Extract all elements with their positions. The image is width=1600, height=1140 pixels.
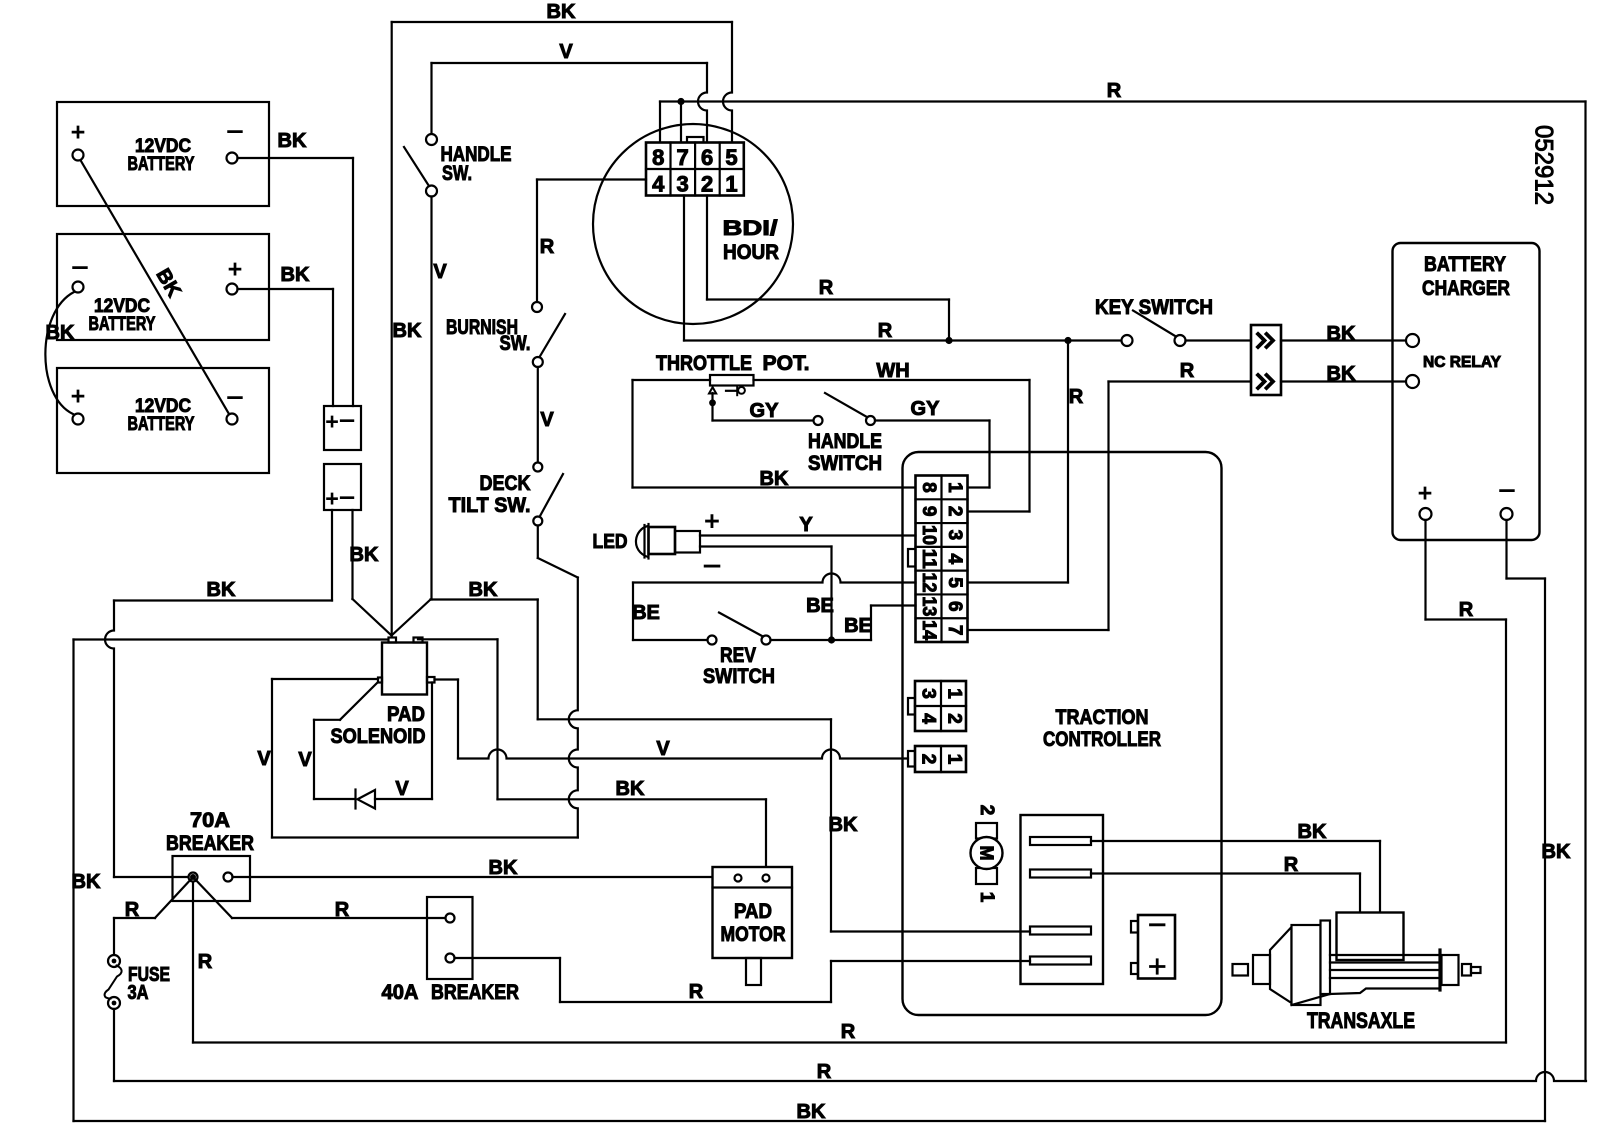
- svg-text:2: 2: [976, 805, 997, 816]
- svg-text:R: R: [878, 320, 893, 342]
- svg-text:SOLENOID: SOLENOID: [331, 725, 426, 748]
- svg-text:2: 2: [944, 506, 965, 517]
- svg-text:BK: BK: [547, 1, 576, 23]
- svg-text:1: 1: [725, 172, 737, 197]
- svg-text:DECK: DECK: [480, 472, 531, 495]
- svg-text:8: 8: [918, 482, 939, 493]
- svg-text:3: 3: [677, 172, 689, 197]
- svg-text:–: –: [228, 380, 243, 410]
- svg-text:–: –: [73, 250, 88, 280]
- svg-text:–: –: [228, 114, 243, 144]
- svg-text:SW.: SW.: [500, 332, 531, 355]
- svg-text:BK: BK: [393, 320, 422, 342]
- svg-text:8: 8: [652, 145, 664, 170]
- svg-text:R: R: [841, 1021, 856, 1043]
- svg-text:HANDLE: HANDLE: [808, 430, 882, 453]
- svg-text:BK: BK: [278, 130, 307, 152]
- svg-text:1: 1: [944, 482, 965, 493]
- svg-text:2: 2: [944, 713, 965, 724]
- svg-text:4: 4: [652, 172, 665, 197]
- svg-text:BK: BK: [1542, 841, 1571, 863]
- svg-text:V: V: [559, 41, 573, 63]
- svg-text:BK: BK: [760, 468, 789, 490]
- svg-text:WH: WH: [876, 360, 909, 382]
- svg-text:V: V: [433, 261, 447, 283]
- svg-text:BATTERY: BATTERY: [128, 154, 195, 175]
- svg-text:BATTERY: BATTERY: [1424, 253, 1506, 276]
- svg-text:5: 5: [944, 577, 965, 588]
- svg-text:BK: BK: [72, 871, 101, 893]
- svg-text:V: V: [540, 409, 554, 431]
- svg-text:BE: BE: [844, 615, 872, 637]
- svg-text:BK: BK: [46, 322, 75, 344]
- svg-text:BK: BK: [489, 857, 518, 879]
- svg-text:2: 2: [918, 754, 939, 765]
- svg-text:CHARGER: CHARGER: [1422, 277, 1510, 300]
- svg-text:–: –: [340, 483, 354, 510]
- svg-text:PAD: PAD: [387, 703, 425, 726]
- svg-text:14: 14: [918, 620, 939, 640]
- svg-text:13: 13: [918, 596, 939, 616]
- svg-text:+: +: [326, 409, 339, 434]
- svg-text:10: 10: [918, 525, 939, 545]
- svg-text:R: R: [819, 277, 834, 299]
- svg-text:BDI/: BDI/: [723, 217, 778, 240]
- svg-text:M: M: [977, 846, 997, 861]
- svg-text:SWITCH: SWITCH: [703, 665, 775, 688]
- svg-text:2: 2: [701, 172, 713, 197]
- svg-text:BK: BK: [797, 1101, 826, 1123]
- svg-text:TILT SW.: TILT SW.: [449, 494, 531, 517]
- svg-text:SW.: SW.: [442, 162, 472, 185]
- svg-text:1: 1: [944, 754, 965, 765]
- svg-text:+: +: [71, 383, 85, 410]
- svg-text:BREAKER: BREAKER: [431, 981, 519, 1004]
- svg-text:THROTTLE: THROTTLE: [656, 352, 752, 375]
- svg-text:V: V: [395, 778, 409, 800]
- svg-text:R: R: [1069, 386, 1084, 408]
- svg-text:–: –: [340, 406, 354, 433]
- svg-text:HOUR: HOUR: [723, 241, 779, 264]
- svg-text:+: +: [1418, 480, 1432, 507]
- svg-text:BATTERY: BATTERY: [89, 314, 156, 335]
- svg-text:9: 9: [918, 506, 939, 517]
- svg-text:V: V: [257, 748, 271, 770]
- svg-text:GY: GY: [750, 400, 780, 422]
- svg-text:052912: 052912: [1530, 125, 1558, 205]
- svg-text:BK: BK: [1327, 323, 1356, 345]
- svg-text:BK: BK: [1327, 363, 1356, 385]
- svg-text:R: R: [1107, 80, 1122, 102]
- svg-text:PAD: PAD: [734, 900, 772, 923]
- svg-text:R: R: [1180, 360, 1195, 382]
- svg-text:4: 4: [944, 553, 965, 564]
- svg-text:BK: BK: [207, 579, 236, 601]
- svg-text:40A: 40A: [382, 981, 419, 1004]
- svg-text:R: R: [689, 981, 704, 1003]
- svg-text:3: 3: [944, 530, 965, 541]
- svg-text:R: R: [817, 1061, 832, 1083]
- svg-text:7: 7: [677, 145, 689, 170]
- svg-text:BK: BK: [469, 579, 498, 601]
- svg-text:LED: LED: [593, 531, 628, 553]
- svg-text:SWITCH: SWITCH: [808, 452, 882, 475]
- svg-text:3: 3: [918, 688, 939, 699]
- svg-text:NC RELAY: NC RELAY: [1423, 354, 1502, 371]
- svg-text:KEY SWITCH: KEY SWITCH: [1095, 296, 1213, 319]
- svg-text:BE: BE: [632, 602, 660, 624]
- svg-text:MOTOR: MOTOR: [721, 923, 786, 946]
- svg-text:BREAKER: BREAKER: [166, 832, 254, 855]
- svg-text:BK: BK: [829, 814, 858, 836]
- svg-text:BE: BE: [806, 595, 834, 617]
- svg-text:BK: BK: [616, 778, 645, 800]
- svg-text:+: +: [71, 119, 85, 146]
- svg-text:4: 4: [918, 713, 939, 724]
- svg-text:BATTERY: BATTERY: [128, 414, 195, 435]
- svg-text:7: 7: [944, 625, 965, 636]
- svg-text:TRACTION: TRACTION: [1056, 706, 1149, 729]
- svg-text:+: +: [228, 256, 242, 283]
- svg-text:R: R: [125, 899, 140, 921]
- svg-text:R: R: [1284, 854, 1299, 876]
- svg-text:1: 1: [976, 892, 997, 903]
- svg-text:1: 1: [944, 688, 965, 699]
- svg-text:+: +: [326, 486, 339, 511]
- svg-text:Y: Y: [799, 514, 813, 536]
- svg-text:70A: 70A: [190, 809, 230, 832]
- svg-text:6: 6: [944, 601, 965, 612]
- svg-text:–: –: [704, 548, 720, 579]
- svg-text:POT.: POT.: [763, 352, 810, 375]
- svg-text:BK: BK: [350, 544, 379, 566]
- svg-text:R: R: [1459, 599, 1474, 621]
- svg-text:CONTROLLER: CONTROLLER: [1043, 728, 1161, 751]
- svg-text:BK: BK: [1298, 821, 1327, 843]
- svg-text:BK: BK: [281, 264, 310, 286]
- svg-text:V: V: [656, 738, 670, 760]
- svg-text:R: R: [198, 951, 213, 973]
- svg-text:GY: GY: [911, 398, 941, 420]
- svg-text:R: R: [335, 899, 350, 921]
- svg-text:TRANSAXLE: TRANSAXLE: [1307, 1008, 1415, 1033]
- svg-text:REV: REV: [720, 644, 756, 667]
- svg-text:3A: 3A: [128, 982, 149, 1004]
- svg-text:R: R: [540, 236, 555, 258]
- svg-text:+: +: [704, 506, 719, 536]
- svg-text:V: V: [298, 749, 312, 771]
- svg-text:–: –: [1500, 473, 1515, 503]
- svg-text:11: 11: [918, 549, 939, 569]
- svg-text:6: 6: [701, 145, 713, 170]
- svg-text:12: 12: [918, 573, 939, 593]
- svg-text:5: 5: [725, 145, 737, 170]
